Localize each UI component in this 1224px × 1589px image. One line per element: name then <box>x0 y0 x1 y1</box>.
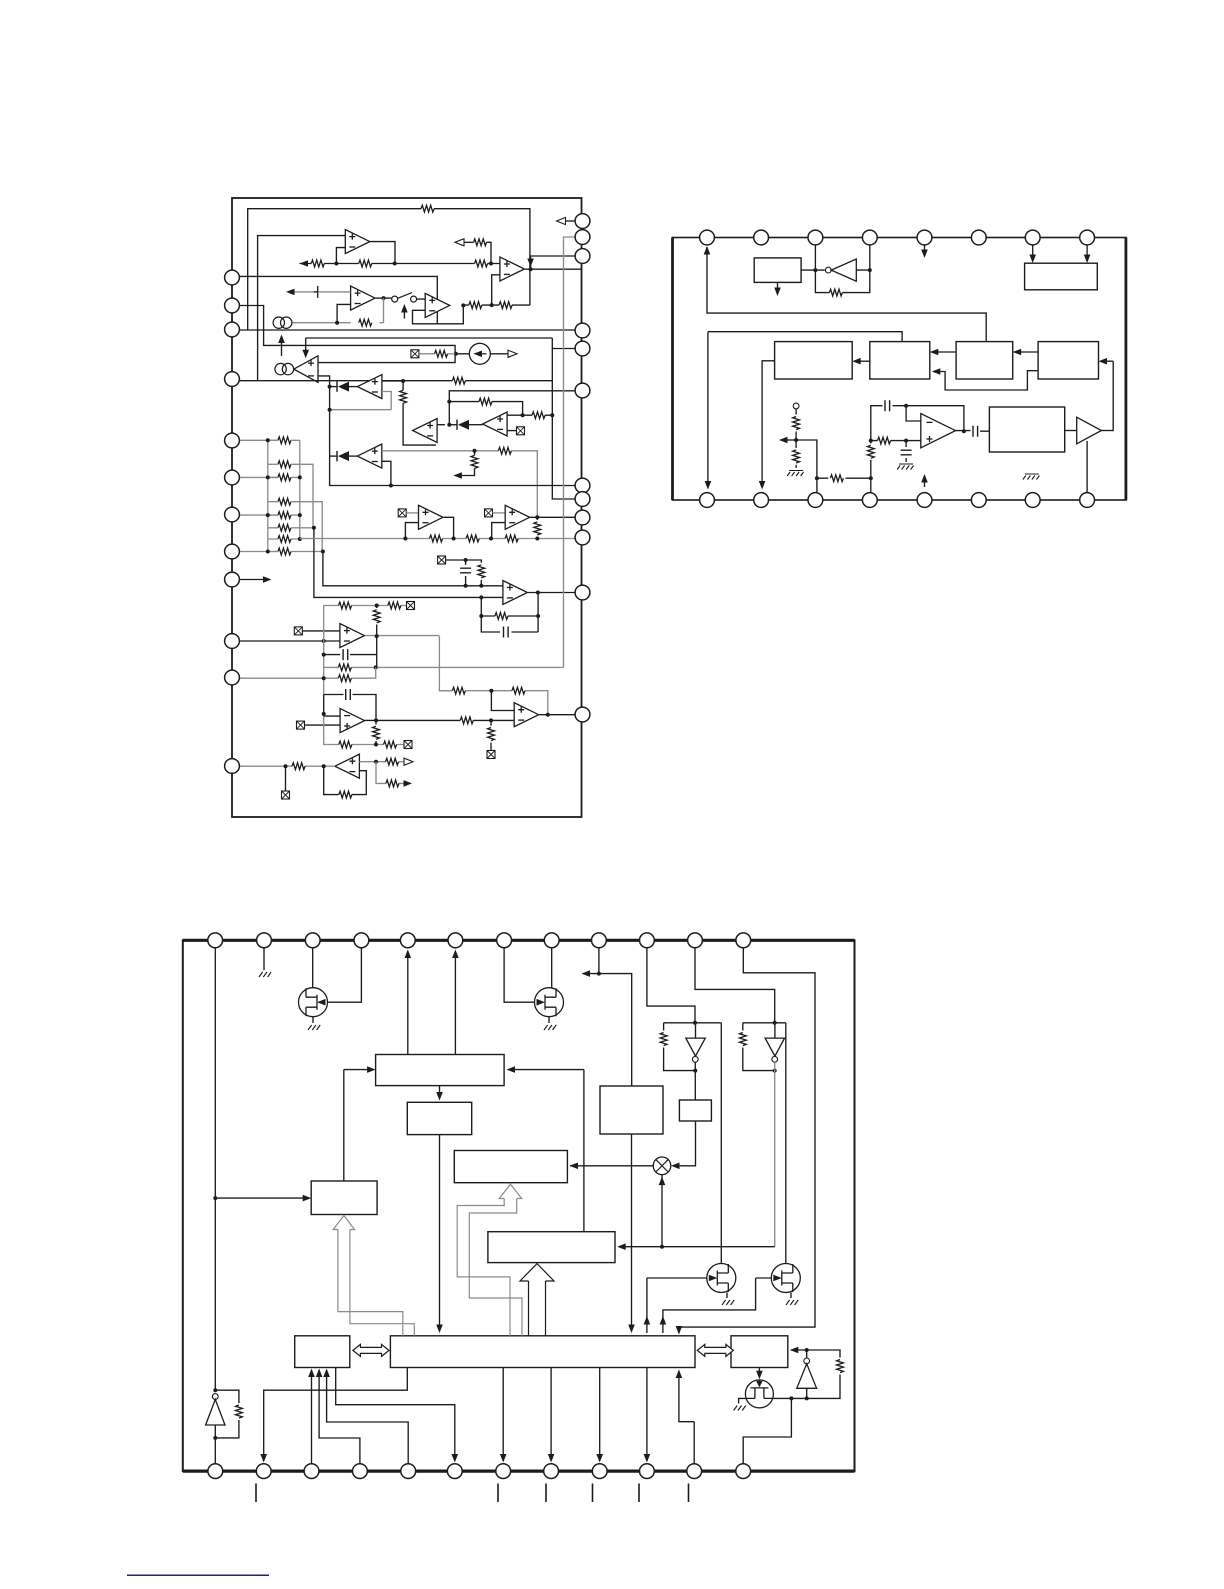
block ST1 <box>775 342 853 379</box>
wire B4 to TIMING <box>509 1070 584 1232</box>
wire pin C1 rail <box>214 948 216 1390</box>
pin C-T4 <box>354 933 369 948</box>
resistor R53 <box>236 1405 243 1418</box>
pin A-R4 <box>575 323 590 338</box>
junction <box>334 262 338 266</box>
resistor ladder <box>278 524 291 531</box>
wire op2 - loop <box>337 304 351 322</box>
inverter U20 <box>825 267 831 273</box>
arrow down <box>644 1454 651 1463</box>
wire <box>905 441 907 447</box>
wire to ext <box>285 766 287 791</box>
pin C-B10 <box>640 1464 655 1479</box>
resistor ladder <box>278 536 291 543</box>
resistor R43 <box>830 475 843 482</box>
footer rule <box>127 1574 269 1576</box>
resistor R31 <box>386 780 399 787</box>
pin B-T3 <box>808 230 823 245</box>
wire <box>1015 351 1038 353</box>
junction bias <box>454 352 458 356</box>
resistor R41 <box>878 437 891 444</box>
wire op12 out to pin R11 <box>528 592 575 594</box>
pin C-B5 <box>401 1464 416 1479</box>
wire from buffer <box>1101 361 1113 431</box>
wire op1 - to row <box>336 248 345 264</box>
wire Q1 feed <box>328 948 362 1002</box>
wire ladder left rail <box>267 440 269 551</box>
wire pin L11 row <box>232 667 376 678</box>
op-amp U1 <box>345 230 370 254</box>
op-amp U10 <box>419 505 444 529</box>
pin A-R11 <box>575 585 590 600</box>
wire <box>469 424 483 426</box>
wire <box>312 1017 314 1023</box>
wire row L3 to R4 <box>232 329 583 331</box>
ext node X4 <box>438 556 446 564</box>
wire lower out row <box>376 762 404 784</box>
wire to bottom pin B2 <box>762 361 775 487</box>
wire op11 out to pin R9 <box>530 516 575 518</box>
wire PORTL b2 <box>319 1371 360 1464</box>
wire summing row <box>300 263 500 265</box>
inverter V1 <box>686 1038 706 1056</box>
block PWR <box>1025 263 1098 290</box>
wire fb resistor leg <box>376 606 378 668</box>
pin B-B3 <box>808 493 823 508</box>
current mirror pair CM2 <box>275 363 294 374</box>
junction osc out <box>962 429 966 433</box>
resistor R25 <box>373 726 380 739</box>
op-amp U7 <box>413 419 438 443</box>
block ST4 <box>1038 342 1098 379</box>
junction <box>489 718 493 722</box>
battery ref symbol <box>314 286 318 298</box>
arrow up <box>405 950 412 959</box>
ext node X5 <box>294 627 302 635</box>
pin B-T2 <box>754 230 769 245</box>
arrow <box>286 289 295 296</box>
wire <box>548 1017 550 1023</box>
arrow down <box>1084 255 1091 264</box>
arrow <box>582 970 591 977</box>
pin C-B7 <box>496 1464 511 1479</box>
resistor R30 <box>386 758 399 765</box>
junction <box>374 718 378 722</box>
junction <box>868 268 872 272</box>
tick mark <box>638 1484 640 1503</box>
capacitor C1 <box>460 568 471 573</box>
arrow down <box>436 1092 443 1101</box>
wire <box>349 455 358 457</box>
wire <box>1032 245 1034 261</box>
ground <box>734 1406 746 1411</box>
junction <box>298 537 302 541</box>
arrow up <box>323 1369 330 1378</box>
wide arrow into REG2 <box>457 1184 522 1336</box>
ground <box>308 1025 320 1030</box>
junction <box>464 558 468 562</box>
wire pin R6 row <box>449 391 575 402</box>
ground <box>787 471 804 477</box>
open arrow out <box>404 758 413 765</box>
capacitor C10 <box>973 426 978 437</box>
junction <box>489 537 493 541</box>
pin A-R10 <box>575 530 590 545</box>
resistor ladder <box>278 548 291 555</box>
wire inverter <box>801 269 870 271</box>
wire Q2 feed <box>504 948 534 1002</box>
wire op13 top row <box>324 605 407 607</box>
op-amp U11 <box>505 505 530 529</box>
IC block C outline <box>183 940 855 1471</box>
resistor R52 <box>837 1360 844 1373</box>
wire <box>726 1293 728 1299</box>
arrow up <box>278 335 285 344</box>
wire <box>330 455 337 457</box>
wire PORTL b1 <box>311 1371 313 1464</box>
block SUB <box>407 1102 471 1134</box>
resistor R4 <box>474 239 487 246</box>
wire pin B5b stub <box>924 476 926 487</box>
wire op15 + row <box>359 761 408 763</box>
wire low feedback <box>934 371 1038 390</box>
arrow up <box>676 1370 683 1379</box>
pin B-T8 <box>1080 230 1095 245</box>
wire pin L4 row to R8 <box>232 381 575 499</box>
arrow up <box>452 950 459 959</box>
junction <box>447 400 451 404</box>
arrow down <box>774 288 781 297</box>
transistor Q5 <box>745 1380 773 1408</box>
resistor <box>452 687 465 694</box>
resistor R44 <box>793 417 800 430</box>
wire op14 - <box>324 695 340 717</box>
junction <box>375 604 379 608</box>
pin A-L9 <box>225 572 240 587</box>
ext node X3 <box>485 509 493 517</box>
junction <box>479 595 483 599</box>
ext node X9 <box>487 751 495 759</box>
junction <box>403 537 407 541</box>
bidirectional bus arrow <box>353 1344 389 1356</box>
junction op5 out <box>529 267 533 271</box>
block ST3 <box>956 342 1013 379</box>
wire op1 output <box>370 242 395 264</box>
wire pins to inverter <box>815 245 869 270</box>
wire <box>932 351 956 353</box>
wire pin C11 net <box>695 948 775 1023</box>
resistor R40 <box>829 289 842 296</box>
wire op1 + input from pin L4 row <box>258 236 346 381</box>
resistor R1b <box>311 260 324 267</box>
pin C-T3 <box>305 933 320 948</box>
wire op15 fb loop <box>324 766 367 794</box>
wire osc out <box>956 430 990 433</box>
resistor <box>512 687 525 694</box>
buffer U22 <box>1077 417 1102 444</box>
op-amp U2 <box>351 286 376 310</box>
junction <box>550 413 554 417</box>
wire S2 + row <box>382 451 538 517</box>
resistor R34 <box>435 350 448 357</box>
capacitor C4 <box>346 689 351 700</box>
block TIMING <box>376 1055 505 1086</box>
resistor R5 <box>469 302 482 309</box>
pin B-T1 <box>700 230 715 245</box>
junction <box>213 1388 217 1392</box>
wire stub <box>777 282 779 293</box>
wire <box>739 1398 747 1403</box>
wire op12 fb RC <box>481 593 538 633</box>
wire <box>1086 245 1088 261</box>
wire gate Q2 <box>551 948 553 988</box>
pin C-B1 <box>208 1464 223 1479</box>
wire <box>796 440 817 493</box>
resistor R32 <box>498 447 511 454</box>
arrow test point <box>263 576 272 583</box>
op-amp U13 <box>340 624 365 648</box>
resistor R10 <box>532 412 545 419</box>
wire op13 out drop <box>439 636 450 691</box>
resistor R50 <box>660 1033 667 1046</box>
wire <box>905 458 907 462</box>
current mirror pair CM1 <box>273 317 292 328</box>
wire op5 output to pin <box>525 268 583 270</box>
op-amp U4 <box>425 293 450 317</box>
junction <box>374 743 378 747</box>
wire <box>375 720 377 744</box>
resistor R29 <box>339 791 352 798</box>
junction <box>266 438 270 442</box>
resistor R23 <box>339 741 352 748</box>
junction <box>805 1396 809 1400</box>
arrow <box>1013 349 1022 356</box>
resistor R17 <box>478 565 485 578</box>
open arrow <box>557 217 566 224</box>
junction <box>660 1245 664 1249</box>
block BUS <box>390 1336 695 1368</box>
wire row to B4 <box>620 1246 775 1248</box>
op-amp U15 <box>335 754 360 778</box>
junction <box>536 591 540 595</box>
junction <box>904 404 908 408</box>
wire <box>437 424 445 426</box>
pin C-B3 <box>304 1464 319 1479</box>
current source CS1 <box>469 343 490 364</box>
wire op2 fb row <box>293 322 384 324</box>
junction <box>298 513 302 517</box>
arrow <box>303 1195 312 1202</box>
pin A-L6 <box>225 470 240 485</box>
arrow up <box>644 1316 651 1325</box>
wire op16 out to pin R12 <box>539 714 575 716</box>
tick mark <box>545 1484 547 1503</box>
wire <box>349 386 357 388</box>
wire left leg <box>870 441 872 493</box>
wire Q4 feed <box>663 1278 771 1333</box>
wire pin C12 net <box>679 948 815 1333</box>
junction <box>489 689 493 693</box>
junction <box>479 614 483 618</box>
wire Q5 to pin C12b <box>743 1398 791 1463</box>
wire gray vertical <box>323 606 325 695</box>
junction <box>374 760 378 764</box>
pin A-R2 <box>575 230 590 245</box>
pin A-L2 <box>225 298 240 313</box>
junction <box>322 639 326 643</box>
junction <box>904 439 908 443</box>
wire op9 - <box>507 430 516 432</box>
wire op5 - loop <box>492 275 500 305</box>
wire buffer to bottom pin B8 <box>1086 441 1088 493</box>
junction <box>489 262 493 266</box>
capacitor C12 <box>901 450 912 455</box>
junction <box>328 408 332 412</box>
wire RC input <box>446 560 482 586</box>
IC block A outline <box>232 198 582 817</box>
pin A-R7 <box>575 478 590 493</box>
op-amp U5 <box>500 257 525 281</box>
tick mark <box>592 1484 594 1503</box>
wire V2 rail <box>743 1023 786 1071</box>
junction <box>546 713 550 717</box>
block REG <box>754 258 801 283</box>
junction <box>869 439 873 443</box>
junction S3 <box>447 423 451 427</box>
wire portr loop <box>791 1350 840 1398</box>
wire <box>302 630 340 632</box>
arrow up <box>308 1369 315 1378</box>
arrow down <box>436 1325 443 1334</box>
pin B-B5 <box>917 493 932 508</box>
wire inv1 fb <box>215 1390 239 1438</box>
pin A-R12 <box>575 707 590 722</box>
IC block B outline <box>673 238 1127 501</box>
resistor R20 <box>388 602 401 609</box>
wire <box>854 360 870 362</box>
block PORTR <box>731 1336 788 1368</box>
op-amp U14 <box>340 709 365 733</box>
pin C-T2 <box>257 933 272 948</box>
pin C-T10 <box>640 933 655 948</box>
wire DET to bus <box>631 1134 633 1327</box>
transistor Q1 <box>299 988 328 1017</box>
arrow down <box>1029 255 1036 264</box>
op-amp U6 <box>357 375 382 399</box>
pin A-L1 <box>225 270 240 285</box>
junction <box>693 1021 697 1025</box>
junction <box>322 712 326 716</box>
transistor Q4 <box>771 1264 800 1293</box>
junction <box>401 379 405 383</box>
wire op2 output <box>376 297 392 299</box>
block OSC <box>989 407 1064 452</box>
wire S2 - loop <box>382 461 391 485</box>
wire to mixer <box>673 1121 696 1166</box>
diode D2 <box>457 420 469 430</box>
arrow down <box>628 1325 635 1334</box>
ground <box>786 1300 798 1305</box>
pin C-B4 <box>353 1464 368 1479</box>
wire bus to pin C8b <box>550 1368 552 1461</box>
wire ladder right 2 <box>291 502 322 552</box>
wire row to pin R7 <box>330 485 575 487</box>
resistor ladder <box>278 512 291 519</box>
arrow <box>367 1066 376 1073</box>
wire fb cap row <box>871 406 964 441</box>
open arrow <box>455 239 464 246</box>
wire op11 - <box>492 523 506 539</box>
pin B-T4 <box>862 230 877 245</box>
arrow down <box>921 250 928 259</box>
wide arrow into CTRL <box>333 1216 414 1336</box>
wire <box>806 1350 808 1358</box>
wire row to op12 + <box>323 552 503 586</box>
resistor R27 <box>488 728 495 741</box>
resistor R24 <box>384 741 397 748</box>
arrow <box>617 1243 626 1250</box>
resistor R-top <box>421 205 434 212</box>
arrow <box>779 437 788 444</box>
ext node X11 <box>411 350 419 358</box>
wire pin L2 net / bias box <box>232 306 455 363</box>
wire <box>1101 430 1113 432</box>
arrow <box>930 349 939 356</box>
resistor R28 <box>292 763 305 770</box>
pin B-B1 <box>700 493 715 508</box>
pin C-T8 <box>544 933 559 948</box>
block LOGIC <box>488 1232 615 1263</box>
arrow in source <box>474 351 483 358</box>
wire pin R3 link <box>531 256 575 269</box>
wire cap leg <box>465 560 467 586</box>
op-amp U8 <box>357 444 382 468</box>
pin A-L4 <box>225 372 240 387</box>
wire fb row <box>439 691 547 715</box>
wire pin R1 <box>564 220 576 222</box>
wire pin C1 to CTRL <box>215 1197 309 1199</box>
wire to pin C1b <box>214 1425 216 1464</box>
wire to ext <box>490 720 492 750</box>
arrow to ext <box>300 260 309 267</box>
resistor R51 <box>739 1033 746 1046</box>
junction <box>213 1436 217 1440</box>
pin B-T6 <box>971 230 986 245</box>
pin B-T5 <box>917 230 932 245</box>
pin B-B2 <box>754 493 769 508</box>
arrow up <box>921 474 928 483</box>
arrow <box>570 1163 579 1170</box>
pin C-T6 <box>448 933 463 948</box>
wire op13 output <box>365 635 440 637</box>
wire control arrow <box>281 336 283 356</box>
pin A-L11 <box>225 670 240 685</box>
wire V1 out <box>694 1062 696 1100</box>
wire PORTL b4 to pin C6b <box>336 1368 455 1461</box>
wire op2 fb vertical <box>383 298 385 323</box>
resistor ladder <box>278 498 291 505</box>
resistor R12 <box>471 455 478 468</box>
arrow up <box>660 1316 667 1325</box>
wire <box>1065 430 1077 432</box>
junction <box>597 972 601 976</box>
pin A-L7 <box>225 507 240 522</box>
arrow <box>507 1066 516 1073</box>
junction <box>773 1069 777 1073</box>
arrow <box>932 368 941 375</box>
tick mark <box>497 1484 499 1503</box>
wire V2 out <box>774 1062 776 1247</box>
